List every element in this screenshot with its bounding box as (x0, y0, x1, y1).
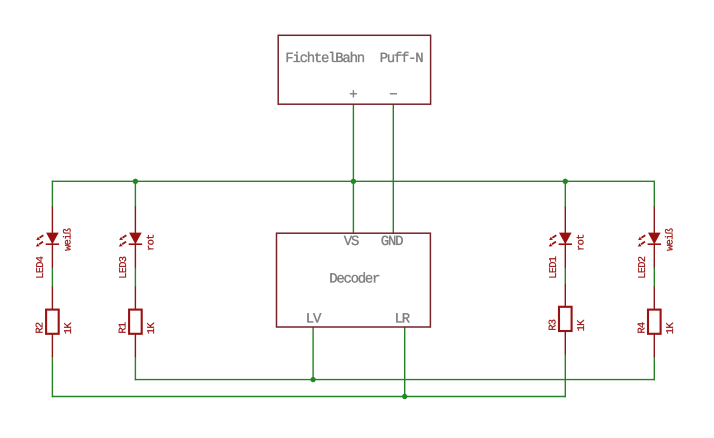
svg-text:Decoder: Decoder (329, 272, 380, 288)
svg-text:Puff-N: Puff-N (380, 51, 424, 67)
svg-text:rot: rot (576, 234, 588, 251)
svg-text:1K: 1K (146, 322, 158, 335)
svg-text:FichtelBahn: FichtelBahn (285, 51, 364, 67)
svg-text:LED1: LED1 (548, 256, 560, 279)
svg-text:GND: GND (381, 234, 403, 250)
svg-text:LV: LV (306, 311, 322, 327)
svg-text:weiß: weiß (63, 228, 75, 251)
svg-text:R3: R3 (548, 319, 560, 331)
svg-text:weiß: weiß (665, 228, 677, 251)
svg-text:1K: 1K (576, 319, 588, 332)
svg-text:R2: R2 (35, 322, 47, 334)
svg-text:VS: VS (344, 234, 359, 250)
svg-text:R1: R1 (118, 322, 130, 334)
svg-text:LR: LR (395, 311, 411, 327)
svg-text:−: − (389, 88, 397, 104)
svg-text:LED4: LED4 (35, 256, 47, 279)
svg-text:1K: 1K (665, 322, 677, 335)
svg-text:LED2: LED2 (637, 256, 649, 279)
svg-text:+: + (349, 88, 357, 104)
svg-text:R4: R4 (637, 322, 649, 334)
svg-text:LED3: LED3 (118, 256, 130, 279)
svg-text:rot: rot (146, 234, 158, 251)
svg-text:1K: 1K (63, 322, 75, 335)
